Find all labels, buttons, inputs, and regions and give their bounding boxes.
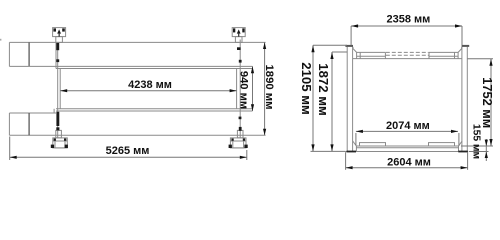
svg-text:155 мм: 155 мм bbox=[470, 124, 481, 159]
svg-text:5265 мм: 5265 мм bbox=[106, 145, 150, 157]
svg-text:1872 мм: 1872 мм bbox=[316, 63, 331, 116]
svg-text:1890 мм: 1890 мм bbox=[263, 65, 275, 110]
svg-text:2358 мм: 2358 мм bbox=[386, 13, 430, 25]
svg-text:4238 мм: 4238 мм bbox=[128, 79, 172, 91]
svg-text:1752 мм: 1752 мм bbox=[480, 77, 495, 128]
svg-text:2604 мм: 2604 мм bbox=[387, 156, 431, 168]
svg-text:2105 мм: 2105 мм bbox=[299, 62, 314, 115]
svg-text:940 мм: 940 мм bbox=[238, 71, 250, 109]
svg-text:2074 мм: 2074 мм bbox=[386, 120, 430, 132]
